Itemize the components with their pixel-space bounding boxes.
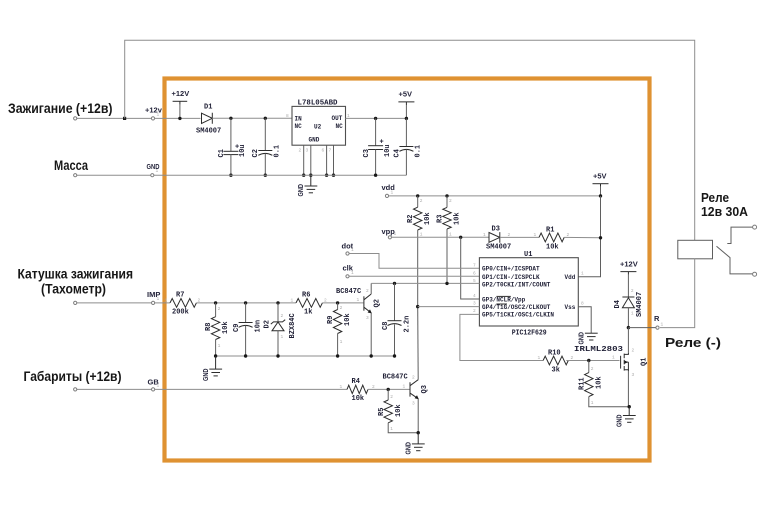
svg-text:1: 1 [420,232,423,238]
svg-text:GP2/T0CKI/INT/COUNT: GP2/T0CKI/INT/COUNT [482,281,551,288]
junction vdd/+5V [599,194,602,197]
svg-text:1: 1 [631,311,634,317]
resistor R2 [414,196,422,307]
svg-text:Масса: Масса [54,157,88,173]
capacitor C8 [388,283,402,356]
svg-text:0.1: 0.1 [415,145,423,158]
junction C2 bottom [264,174,267,177]
transistor Q3 BC847C [410,380,419,433]
regulator bottom pin 3 [310,145,312,175]
relay coil K1 [678,240,713,258]
svg-text:2.2n: 2.2n [404,316,412,333]
mosfet Q1 IRLML2803 [621,353,629,372]
svg-text:GND: GND [296,184,305,197]
svg-text:1: 1 [581,271,584,277]
node R terminal circle [656,326,659,329]
wire vpp to D3 [392,236,489,238]
wire clk to GP1 [349,275,479,277]
svg-text:Vss: Vss [565,304,576,311]
svg-text:3: 3 [366,315,369,321]
node vpp terminal circle [388,236,391,239]
junction rail R8 [214,354,217,357]
svg-text:3: 3 [632,372,635,378]
node vdd terminal circle [385,194,388,197]
svg-text:2: 2 [449,198,452,204]
wire +5V down to Vdd node [600,187,602,196]
regulator bottom pin 7 [333,145,335,175]
svg-text:C3: C3 [363,149,371,157]
wire vpp to GP3 [461,237,480,299]
svg-text:7: 7 [473,263,476,269]
svg-text:1: 1 [661,322,664,328]
svg-text:8: 8 [286,113,289,119]
svg-text:10n: 10n [255,320,263,333]
junction GP3 branch [459,236,462,239]
node clk terminal circle [346,275,349,278]
svg-text:GP5/T1CKI/OSC1/CLKIN: GP5/T1CKI/OSC1/CLKIN [482,312,554,319]
wire IMP to R7 [155,302,170,304]
junction regulator pin6 [325,174,328,177]
svg-text:1: 1 [449,232,452,238]
wire Q3 collector to GP4 node [417,307,420,380]
svg-text:1: 1 [534,232,537,238]
overline T1G [496,303,507,305]
junction regulator pin2 [302,174,305,177]
junction R5 top [387,388,390,391]
power +12V symbol (D4) [620,271,636,273]
svg-text:2: 2 [473,308,476,314]
svg-text:Vdd: Vdd [565,274,576,281]
microcontroller U1 box [479,258,578,326]
junction Q3 emitter / R5 [417,431,420,434]
svg-text:1k: 1k [304,309,312,317]
wire R6 to Q2 base [322,302,363,304]
resistor R1 [539,233,564,242]
junction C1 bottom [229,174,232,177]
junction rail R9 [336,354,339,357]
svg-text:3: 3 [473,301,476,307]
wire R7 to R6 [196,302,296,304]
svg-text:1: 1 [357,297,360,303]
svg-text:1: 1 [340,384,343,390]
power +5V symbol (over PIC) [593,183,609,185]
svg-text:Реле: Реле [701,190,729,205]
wire +12v rail into box [155,117,201,119]
svg-text:7: 7 [329,148,332,154]
junction rail D2 [276,354,279,357]
svg-text:R: R [654,314,660,323]
svg-text:SM4007: SM4007 [486,244,511,252]
svg-text:1: 1 [157,296,160,302]
junction rail C9 [244,354,247,357]
wire vdd rail [389,195,601,197]
svg-text:6: 6 [473,271,476,277]
junction R3 bottom GP2 [445,282,448,285]
svg-text:2: 2 [218,306,221,312]
svg-text:1: 1 [291,298,294,304]
svg-text:C8: C8 [382,322,390,330]
svg-text:10k: 10k [424,212,432,225]
svg-text:0.1: 0.1 [274,145,282,158]
junction C2 top [264,117,267,120]
wire ignition input [77,117,152,119]
junction D4 / relay node [627,326,630,329]
svg-text:10k: 10k [352,395,365,403]
svg-text:2: 2 [508,232,511,238]
svg-text:1: 1 [165,298,168,304]
junction C8 top [393,282,396,285]
svg-text:GP4/T1G/OSC2/CLKOUT: GP4/T1G/OSC2/CLKOUT [482,304,551,311]
svg-text:R7: R7 [176,292,184,300]
svg-text:BZX84C: BZX84C [289,313,297,338]
wire R1 to +5V node [564,236,600,238]
svg-text:C9: C9 [233,324,241,332]
node GB terminal circle [152,388,155,391]
svg-text:BC847C: BC847C [336,288,361,296]
diode D4 [622,275,634,328]
junction C3 bottom [374,174,377,177]
svg-text:200k: 200k [172,309,189,317]
svg-text:Катушка зажигания: Катушка зажигания [18,266,134,282]
svg-text:3: 3 [306,148,309,154]
svg-text:D1: D1 [204,104,212,112]
svg-text:IN: IN [295,115,303,122]
node dot terminal circle [346,252,349,255]
resistor R4 [347,385,368,393]
svg-text:+5V: +5V [399,90,413,99]
svg-text:GND: GND [309,137,320,144]
power +12V tick [179,101,181,104]
power +5V tick [600,184,602,187]
svg-text:1: 1 [394,231,397,237]
svg-text:D2: D2 [264,320,272,328]
junction R9 top [336,301,339,304]
svg-text:1: 1 [612,355,615,361]
svg-text:IRLML2803: IRLML2803 [574,346,623,354]
svg-text:2: 2 [366,288,369,294]
svg-text:Зажигание (+12в): Зажигание (+12в) [8,100,113,116]
capacitor C4 [399,118,413,175]
wire +5V vertical to Vdd pin [578,196,600,277]
svg-text:10u: 10u [384,144,392,157]
resistor R7 [170,299,196,308]
svg-text:10k: 10k [454,212,462,225]
svg-text:8: 8 [581,301,584,307]
ground symbol input rail [209,356,222,376]
wire R10 to Q1 gate [566,360,619,362]
junction C1 top [229,117,232,120]
svg-text:10k: 10k [395,404,403,417]
wire outer loop (top) [125,40,695,240]
svg-text:10k: 10k [546,244,559,252]
junction R3 top [445,194,448,197]
svg-text:1: 1 [218,343,221,349]
wire tachometer input [77,302,152,304]
svg-text:2: 2 [412,375,415,381]
svg-text:D4: D4 [614,300,622,308]
junction R1/+5V vertical [599,236,602,239]
junction R8 top [214,301,217,304]
svg-text:2: 2 [420,198,423,204]
regulator U2 box [292,106,346,145]
svg-text:Q1: Q1 [641,358,649,366]
svg-text:OUT: OUT [332,115,343,122]
svg-text:(Тахометр): (Тахометр) [41,281,106,297]
junction R2 top [416,194,419,197]
svg-text:1: 1 [157,112,160,118]
wire node to R terminal [628,327,655,329]
overline NCLR [496,295,510,297]
svg-text:3k: 3k [552,367,560,375]
wire GND rail [154,174,407,176]
svg-text:PIC12F629: PIC12F629 [512,330,547,338]
wire Q1 source to ground [627,371,629,406]
wire regulator OUT to +5V [346,117,407,119]
svg-text:1: 1 [483,232,486,238]
svg-text:+12V: +12V [172,89,190,98]
svg-text:D3: D3 [492,226,500,234]
svg-text:BC847C: BC847C [383,374,408,382]
svg-text:C2: C2 [252,149,260,157]
capacitor C3 [368,118,384,175]
junction rail C8 [393,354,396,357]
frame orange border [165,79,650,461]
svg-text:R3: R3 [437,215,445,223]
svg-text:GND: GND [201,368,210,381]
svg-text:R1: R1 [546,227,554,235]
junction D2 top [276,301,279,304]
svg-text:NC: NC [295,123,303,130]
wire D1 to regulator IN [212,117,292,119]
svg-text:2: 2 [299,148,302,154]
svg-text:R5: R5 [378,408,386,416]
power +5V tick [405,102,407,105]
svg-text:1: 1 [390,426,393,432]
node GB terminal circle left [74,388,77,391]
wire GP5 to R10 [460,314,543,360]
svg-text:10k: 10k [596,376,604,389]
svg-text:L78L05ABD: L78L05ABD [298,100,338,108]
capacitor C9 [239,303,253,356]
svg-text:2: 2 [390,394,393,400]
svg-text:R2: R2 [407,215,415,223]
regulator bottom pin 2 [303,145,305,175]
node relay contact circle bottom [753,272,757,276]
node IMP terminal circle left [74,301,77,304]
resistor R5 [384,389,418,432]
svg-text:C4: C4 [394,149,402,157]
regulator bottom pin 6 [326,145,328,175]
ground symbol Vss [585,333,598,340]
svg-text:2: 2 [281,313,284,319]
svg-text:+12V: +12V [620,260,638,269]
svg-text:Q3: Q3 [421,385,429,393]
resistor R3 [443,196,451,284]
zener diode D2 [271,303,285,356]
wire Vss to ground [578,307,591,333]
junction rail Q2 emitter [370,354,373,357]
svg-text:R8: R8 [205,323,213,331]
junction C4 top [405,117,408,120]
svg-text:NC: NC [336,123,344,130]
node relay contact circle top [753,225,757,229]
junction regulator pin3 [309,174,312,177]
svg-text:1: 1 [157,383,160,389]
ground symbol Q3 [412,433,425,451]
wire GP4 [418,306,480,308]
wire dot to GP0 [349,254,479,269]
svg-text:U2: U2 [314,124,322,131]
svg-text:Габариты (+12в): Габариты (+12в) [24,368,122,384]
power +5V symbol (over C4) [398,101,414,103]
svg-text:1: 1 [391,190,394,196]
junction GP4/R2 [416,305,419,308]
resistor R6 [296,299,322,308]
svg-text:10k: 10k [344,313,352,326]
svg-text:3: 3 [412,401,415,407]
svg-text:C1: C1 [218,149,226,157]
svg-text:2: 2 [340,305,343,311]
junction C3 top [374,117,377,120]
power +12V symbol (top left) [173,100,188,102]
svg-text:U1: U1 [524,251,532,259]
junction regulator pin7 [332,174,335,177]
svg-text:R9: R9 [327,316,335,324]
svg-text:+5V: +5V [593,172,607,181]
ground symbol Q1 [623,407,636,423]
svg-text:10k: 10k [222,321,230,334]
svg-text:GP3/NCLR/Vpp: GP3/NCLR/Vpp [482,296,526,303]
svg-text:SM4007: SM4007 [636,292,644,317]
node +12v terminal circle left [74,117,77,120]
relay switch movable arm [717,246,753,274]
wire +5V to OUT rail [405,105,407,118]
svg-text:R11: R11 [579,377,587,390]
svg-text:12в 30А: 12в 30А [701,204,749,219]
svg-text:1: 1 [591,400,594,406]
junction +12V [178,117,181,120]
svg-text:2: 2 [632,348,635,354]
power +12V tick (D4) [627,272,629,275]
ground symbol under regulator [305,175,318,193]
transistor Q2 BC847C [364,283,372,356]
svg-text:GND: GND [577,332,586,345]
diode D3 [489,232,500,243]
svg-text:R6: R6 [302,292,310,300]
wire lights input [77,388,152,390]
wire D4 node to Q1 drain [627,328,629,353]
wire R4 to Q3 base [368,388,410,390]
svg-text:R4: R4 [352,378,360,386]
svg-text:6: 6 [322,148,325,154]
svg-text:GP0/CIN+/ICSPDAT: GP0/CIN+/ICSPDAT [482,266,540,273]
svg-text:2: 2 [591,366,594,372]
svg-text:4: 4 [473,293,476,299]
diode D1 [202,113,213,124]
wire Q2 collector to GP2 [371,282,479,284]
wire +12V symbol to rail [179,105,181,119]
resistor R10 [543,356,568,365]
junction outer loop branch [123,117,126,120]
svg-text:2: 2 [631,288,634,294]
wire input ground rail [216,355,395,357]
junction C9 top [244,301,247,304]
svg-text:1: 1 [340,339,343,345]
svg-text:Реле (-): Реле (-) [665,335,721,350]
resistor R9 [333,303,341,356]
wire relay coil to R node [660,259,695,328]
svg-text:GND: GND [615,414,624,427]
resistor R8 [211,303,219,356]
svg-text:GND: GND [404,442,413,455]
svg-text:GP1/CIN-/ICSPCLK: GP1/CIN-/ICSPCLK [482,274,540,281]
svg-text:2: 2 [372,384,375,390]
svg-text:10u: 10u [239,144,247,157]
wire GB to R4 [155,388,347,390]
node IMP terminal circle [152,301,155,304]
junction Q1 source / R11 rail [628,405,631,408]
wire D3 to R1 [500,236,539,238]
svg-text:Q2: Q2 [374,299,382,307]
node GND terminal circle [151,174,154,177]
svg-text:SM4007: SM4007 [196,128,221,136]
svg-text:1: 1 [281,334,284,340]
resistor R11 [585,361,630,407]
wire ground input [77,174,151,176]
svg-text:1: 1 [403,384,406,390]
node +12v terminal circle [151,117,154,120]
svg-text:1: 1 [351,270,354,276]
capacitor C1 [223,118,239,175]
svg-text:R10: R10 [548,350,561,358]
svg-text:1: 1 [351,247,354,253]
relay switch fixed contact top [727,227,752,243]
svg-text:+12v: +12v [145,106,163,115]
capacitor C2 [258,118,272,175]
node GND terminal circle left [74,174,77,177]
svg-text:1: 1 [156,168,159,174]
junction R11 top [587,359,590,362]
svg-text:2: 2 [324,298,327,304]
svg-text:1: 1 [538,355,541,361]
